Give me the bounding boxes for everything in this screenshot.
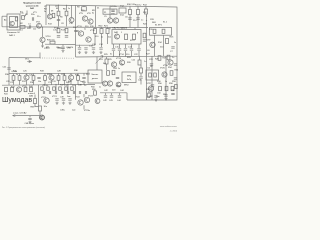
stub C15 bot — [113, 51, 115, 57]
svg-text:DA1: DA1 — [30, 7, 34, 10]
stub C16 top — [119, 44, 121, 48]
capacitor C39 — [67, 91, 68, 94]
annotation R25 — [108, 59, 113, 61]
annotation 220 — [112, 90, 116, 92]
annotation 68 — [51, 11, 54, 13]
annotation 22н — [133, 20, 136, 22]
LPF box Z2 — [122, 72, 136, 83]
resistor R74 — [65, 87, 68, 90]
arrowhead VT10 emitter — [41, 45, 43, 47]
annotation С20 — [149, 29, 154, 31]
capacitor C20 — [143, 40, 146, 41]
resistor R2a — [22, 16, 25, 20]
label R58 — [169, 83, 174, 85]
label VT2 — [36, 21, 41, 23]
svg-text:С39: С39 — [60, 96, 65, 98]
svg-text:1к: 1к — [174, 42, 176, 44]
label 1Pa — [57, 48, 62, 50]
label VT21 — [41, 97, 47, 99]
capacitor C49 — [151, 85, 154, 86]
svg-text:1к: 1к — [44, 11, 46, 13]
svg-text:ФНЧ: ФНЧ — [124, 83, 129, 86]
annotation 1к — [165, 81, 167, 83]
annotation 1мк — [72, 109, 75, 111]
svg-text:R25: R25 — [104, 54, 109, 56]
label C33 — [82, 82, 87, 84]
annotation DA2 — [114, 31, 119, 34]
svg-text:1мк: 1мк — [67, 96, 70, 98]
wire to det box — [96, 56, 98, 70]
resistor R10v — [129, 10, 132, 15]
annotation R36 — [75, 74, 80, 76]
svg-text:R36: R36 — [74, 70, 79, 72]
ground C14 — [99, 51, 102, 54]
capacitor C12 — [84, 48, 87, 49]
stub row1 top x26.5 — [26, 73, 28, 75]
wire R12 top — [145, 6, 147, 9]
resistor R54 — [170, 71, 173, 76]
diode VD1 — [27, 60, 32, 63]
resistor R23 — [133, 34, 136, 39]
capacitor C40 — [62, 99, 65, 100]
junction y84 a — [43, 84, 44, 85]
svg-text:510: 510 — [126, 54, 130, 56]
label C13 — [89, 45, 94, 47]
wire R20 low — [101, 34, 103, 48]
annotation R13 — [48, 23, 53, 25]
resistor R14 — [162, 29, 165, 33]
label C42 — [103, 100, 108, 102]
svg-text:С38: С38 — [78, 85, 83, 87]
label det line2 — [92, 78, 99, 80]
junction y84 c — [67, 84, 68, 85]
label C50 — [157, 92, 162, 94]
svg-text:U2: U2 — [150, 66, 153, 68]
stub C42 — [105, 93, 107, 95]
wire x42 down — [42, 27, 44, 37]
svg-text:R12: R12 — [143, 4, 148, 6]
capacitor C24 — [174, 64, 177, 65]
annotation 36 — [46, 85, 49, 87]
capacitor C41 — [79, 91, 80, 94]
filter Z1 — [103, 9, 117, 14]
svg-text:1мк: 1мк — [72, 109, 75, 111]
annotation R2 — [27, 28, 30, 30]
annotation VT1 — [33, 12, 38, 14]
label R15 — [170, 37, 175, 39]
annotation 1к — [101, 36, 103, 38]
annotation 1н — [121, 64, 123, 66]
wire into A1 — [2, 15, 7, 17]
capacitor C1 — [29, 25, 30, 28]
wire y73.5 — [9, 72, 90, 74]
annotation С47 — [149, 96, 154, 98]
svg-text:1к: 1к — [16, 74, 18, 76]
section label Шумодав — [2, 97, 32, 104]
stub C11 — [79, 45, 81, 47]
resistor R75 — [71, 87, 74, 90]
annotation 12В — [150, 19, 154, 21]
stub row1 bottom x64.5 — [64, 80, 66, 85]
svg-text:С25: С25 — [23, 71, 28, 73]
svg-text:С52: С52 — [171, 90, 176, 92]
resistor R57 — [165, 86, 168, 90]
resistor R34 — [57, 76, 60, 81]
vert x56 — [55, 85, 57, 92]
capacitor C5 — [128, 18, 131, 19]
label VT5 — [79, 13, 84, 15]
left rail x9 — [8, 58, 10, 85]
label 1P6 — [67, 48, 72, 50]
wire R19 low — [94, 34, 96, 46]
label C2 value — [56, 8, 59, 10]
svg-text:22н: 22н — [86, 74, 89, 76]
svg-text:1н: 1н — [144, 61, 146, 63]
capacitor C47 — [154, 96, 157, 97]
annotation 1мк — [67, 96, 70, 98]
capacitor C42 — [104, 96, 107, 97]
label C8 — [56, 47, 60, 49]
svg-text:VT14: VT14 — [119, 54, 125, 56]
svg-text:R6: R6 — [60, 16, 63, 18]
stub R8 — [83, 6, 85, 7]
stub row1 top x19.5 — [19, 73, 21, 75]
stub R25 low — [106, 64, 108, 70]
svg-text:1мк: 1мк — [80, 81, 83, 83]
annotation R6 — [60, 16, 63, 18]
svg-text:R31: R31 — [22, 81, 27, 83]
resistor R4 — [52, 13, 55, 17]
ground C47 — [154, 98, 157, 101]
transistor VT23 — [84, 97, 89, 102]
svg-text:С23: С23 — [149, 59, 154, 61]
label C10 — [66, 47, 71, 49]
label VT9 — [147, 40, 152, 42]
stub row1 bottom x19.5 — [19, 80, 21, 85]
svg-text:R56: R56 — [157, 81, 162, 83]
resistor R73 — [59, 87, 62, 90]
svg-text:С42: С42 — [103, 100, 108, 102]
stub R59 low — [39, 111, 41, 116]
junction bus 1 — [58, 5, 59, 6]
annotation 1н — [144, 61, 146, 63]
annotation R55 — [146, 89, 151, 91]
stub C19 top — [138, 44, 140, 48]
transistor VT4 — [69, 18, 74, 23]
svg-text:С22: С22 — [134, 54, 139, 56]
transistor VT7 — [107, 18, 112, 23]
svg-text:Предварительный: Предварительный — [23, 2, 41, 5]
transistor VT19 — [68, 75, 73, 80]
resistor R24 — [143, 33, 146, 38]
annotation R27 — [146, 54, 151, 56]
svg-text:С29: С29 — [10, 82, 15, 84]
capacitor C46 — [174, 78, 177, 79]
junction y84 b — [55, 84, 56, 85]
capacitor C48 — [28, 118, 31, 119]
svg-text:R26: R26 — [127, 62, 132, 64]
capacitor C36 — [49, 91, 50, 94]
svg-text:VT23: VT23 — [88, 95, 94, 97]
capacitor C44 — [118, 96, 121, 97]
stub C44 — [119, 93, 121, 95]
label R2a — [31, 14, 36, 16]
svg-text:С1: С1 — [20, 30, 23, 32]
label VT27 — [147, 83, 153, 85]
resistor R45 — [34, 99, 37, 104]
wire R10 top — [129, 6, 131, 9]
label R3 — [44, 9, 48, 11]
transistor VT26 — [162, 72, 167, 77]
resistor R61 — [154, 73, 157, 77]
transistor VT24 — [95, 99, 100, 104]
resistor R70 — [41, 87, 44, 90]
label R33 — [40, 70, 45, 72]
label C35 — [42, 85, 47, 87]
annotation VT20 — [22, 86, 28, 88]
label R50 — [92, 89, 97, 91]
stub row1 bottom x45 — [44, 80, 46, 85]
annotation 1к — [68, 8, 70, 10]
annotation VT23 — [88, 95, 94, 97]
annotation 1н — [172, 57, 174, 59]
annotation С44 — [120, 90, 125, 92]
annotation С26 — [29, 74, 34, 76]
annotation С13 — [92, 44, 97, 46]
annotation VT23а — [84, 110, 91, 112]
capacitor C43 — [110, 96, 113, 97]
label R9 value — [92, 12, 94, 14]
label k vyv 6 — [28, 93, 36, 95]
wire R21 low — [107, 34, 109, 45]
label R59 value — [44, 106, 47, 108]
ground C40 — [62, 102, 65, 105]
annotation 22н — [86, 74, 89, 76]
capacitor C52 — [171, 93, 174, 94]
resistor R19 — [94, 29, 97, 34]
annotation 10к — [147, 97, 150, 99]
wire VT4 collector — [71, 5, 73, 17]
svg-text:R8: R8 — [77, 7, 80, 9]
svg-text:1мк: 1мк — [156, 96, 159, 98]
ground C41 — [68, 102, 71, 105]
capacitor C26 — [37, 77, 40, 78]
annotation R19 — [90, 26, 95, 28]
svg-text:ZQ1: ZQ1 — [120, 14, 125, 16]
capacitor C8 — [61, 47, 64, 48]
label R36 — [74, 70, 79, 72]
resistor R56 — [159, 86, 162, 90]
junction VT2 — [42, 27, 43, 28]
svg-text:VT26: VT26 — [160, 67, 166, 69]
svg-text:С2: С2 — [44, 6, 47, 8]
label 1P2 — [44, 48, 47, 50]
stub C15 top — [113, 44, 115, 48]
resistor R30v — [12, 76, 15, 81]
svg-text:1Пг: 1Пг — [70, 47, 74, 49]
svg-text:Шумодав: Шумодав — [2, 97, 32, 104]
resistor R11v — [137, 10, 140, 15]
ground C50 — [164, 97, 167, 100]
transistor VT10 — [40, 37, 45, 42]
capacitor C13 — [92, 48, 95, 49]
IC DA2 outline — [112, 30, 141, 45]
annotation С37 — [64, 85, 69, 87]
label C48 value — [25, 123, 34, 125]
annotation Z1 — [97, 7, 100, 9]
annotation R28 — [155, 59, 160, 61]
svg-text:R2: R2 — [20, 23, 24, 25]
svg-text:к выв.6: к выв.6 — [28, 93, 36, 95]
stub row1 bottom x26.5 — [26, 80, 28, 85]
top supply bus — [46, 5, 148, 7]
svg-text:С6: С6 — [147, 50, 150, 52]
resistor R41 — [5, 87, 8, 91]
transistor VT1 — [10, 21, 15, 26]
resistor R8 — [82, 7, 87, 11]
capacitor C41 — [68, 99, 71, 100]
stub R53 tail — [140, 80, 142, 85]
detector box U1 — [88, 70, 102, 83]
capacitor C17 — [124, 49, 127, 50]
svg-text:С50: С50 — [157, 92, 162, 94]
annotation С6 — [125, 17, 128, 19]
svg-text:С8: С8 — [61, 23, 64, 25]
svg-text:С13: С13 — [92, 44, 97, 46]
annotation R50 — [91, 86, 96, 88]
svg-text:Рис. 2. Принципиальная схема п: Рис. 2. Принципиальная схема приемника (… — [2, 127, 45, 129]
svg-text:VT23а: VT23а — [84, 110, 91, 112]
svg-text:R2а: R2а — [31, 14, 36, 16]
svg-text:С5: С5 — [104, 16, 107, 18]
stub row1 top x78 — [77, 73, 79, 75]
annotation С14 — [99, 44, 104, 46]
resistor R43 — [24, 87, 27, 91]
annotation R33 — [47, 74, 52, 76]
svg-text:R29: R29 — [163, 58, 168, 60]
annotation 510 — [148, 92, 152, 94]
stub C17 top — [125, 44, 127, 48]
svg-text:R40: R40 — [68, 81, 73, 83]
label C28 — [57, 70, 62, 72]
annotation VT16 — [163, 65, 169, 67]
stub R45 bottom — [35, 104, 39, 107]
resistor R53 — [140, 68, 143, 73]
annotation 1к — [174, 42, 176, 44]
svg-text:R50: R50 — [91, 86, 96, 88]
svg-text:детект.: детект. — [92, 78, 99, 80]
svg-text:5к1: 5к1 — [108, 37, 112, 39]
svg-text:R16 10к: R16 10к — [47, 39, 55, 41]
label R10 — [127, 4, 136, 6]
transistor VT30 — [116, 82, 121, 87]
transistor VT9 — [150, 42, 155, 47]
stub row1 top x33.5 — [33, 73, 35, 75]
svg-text:С28: С28 — [57, 70, 62, 72]
transistor VT29 — [103, 81, 108, 86]
annotation С1 — [20, 30, 23, 32]
stub DA2 pin b — [121, 28, 123, 30]
label DA2 pin — [29, 95, 34, 98]
bus C — [46, 26, 148, 29]
capacitor C50 — [164, 95, 167, 96]
svg-text:Z1: Z1 — [97, 7, 100, 9]
svg-text:VT16: VT16 — [163, 65, 169, 67]
svg-text:VT1: VT1 — [33, 12, 38, 14]
svg-text:С47: С47 — [149, 96, 154, 98]
label R21 — [104, 26, 109, 28]
annotation С6 — [147, 50, 150, 52]
ground C12 — [84, 51, 87, 54]
svg-text:К174: К174 — [130, 40, 135, 42]
label VD1 — [25, 58, 30, 60]
capacitor C37 — [55, 91, 56, 94]
wire VT10 emitter — [42, 43, 44, 48]
resistor R35 — [63, 76, 66, 81]
transistor VT6 — [88, 19, 93, 24]
label R40 — [66, 82, 71, 84]
stub C8 — [62, 45, 64, 47]
svg-text:U2: U2 — [148, 68, 151, 70]
resistor R36v — [77, 76, 80, 81]
vertical x152 — [151, 56, 153, 100]
svg-text:68: 68 — [51, 11, 54, 13]
svg-text:1: 1 — [121, 32, 123, 34]
svg-text:С21: С21 — [3, 66, 8, 68]
stub C16 bot — [119, 51, 121, 57]
wire R5 bottom — [58, 16, 60, 27]
capacitor C1b — [32, 17, 33, 20]
annotation С10 — [69, 23, 74, 25]
annotation R8 — [77, 7, 80, 9]
annotation R31 — [22, 81, 27, 83]
svg-text:R59: R59 — [31, 106, 36, 108]
capacitor C40 — [73, 91, 74, 94]
wire y85 — [2, 83, 95, 86]
capacitor C21 — [7, 68, 10, 69]
label C44 — [117, 100, 122, 102]
svg-text:3кГц: 3кГц — [127, 79, 132, 81]
annotation 120 — [81, 10, 85, 12]
label R55 — [175, 70, 180, 72]
svg-text:1к: 1к — [165, 81, 167, 83]
svg-text:С10: С10 — [69, 23, 74, 25]
label ZQ1 — [120, 5, 125, 7]
svg-text:R55: R55 — [175, 70, 180, 72]
crystal ZQ1 — [119, 8, 126, 13]
resistor R31 — [18, 76, 21, 81]
svg-text:1Пв: 1Пв — [58, 47, 62, 49]
label R47 — [60, 85, 65, 87]
transistor VT12 — [86, 37, 91, 42]
svg-text:R26: R26 — [127, 57, 132, 59]
resistor R27 — [138, 60, 141, 65]
label C1 — [28, 23, 32, 25]
label R56 — [158, 83, 163, 85]
stub row1 top x45 — [44, 73, 46, 75]
annotation U2 — [150, 66, 153, 68]
annotation VT11 — [77, 26, 83, 28]
svg-text:VT9: VT9 — [147, 40, 152, 42]
label K1 — [155, 25, 163, 27]
label C1a — [20, 13, 25, 15]
svg-text:ФНЧ: ФНЧ — [127, 75, 132, 78]
annotation 1мк — [80, 81, 83, 83]
stub row1 bottom x71 — [70, 80, 72, 85]
annotation R56 — [157, 81, 162, 83]
svg-text:R23: R23 — [99, 59, 104, 61]
stub R53 low — [140, 73, 142, 76]
